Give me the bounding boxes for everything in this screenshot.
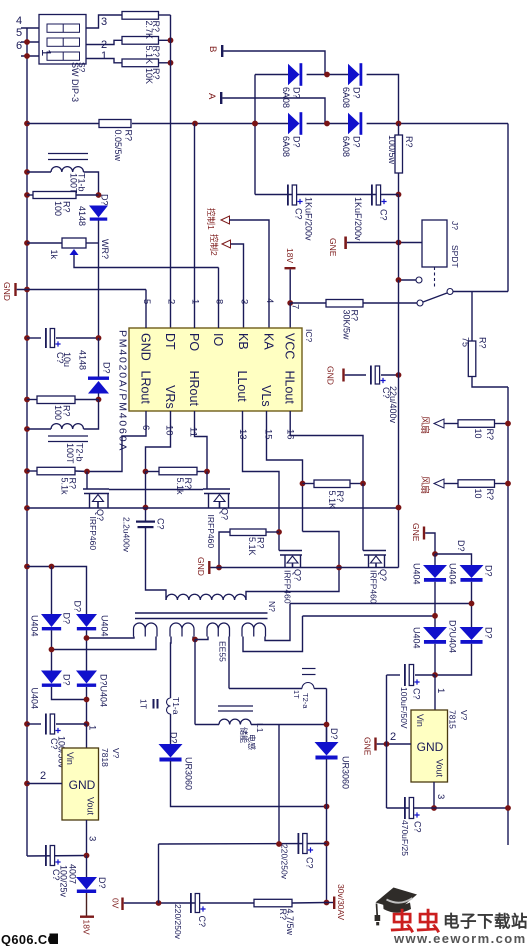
resistor R? 5.1K mid — [314, 480, 350, 488]
svg-text:Vout: Vout — [86, 797, 96, 816]
svg-text:D?: D? — [352, 87, 362, 99]
wire pin6 LRout — [87, 411, 146, 472]
node d4 join — [84, 697, 90, 703]
wire pin10 VRs — [146, 411, 171, 472]
svg-text:D?: D? — [292, 136, 302, 148]
wire common to rail — [453, 291, 508, 293]
ground GND 22u — [342, 369, 344, 382]
capacitor C? 470uF/25 — [404, 797, 406, 819]
wire control2 to KB — [231, 244, 244, 328]
capacitor C? 1KuF/200v b — [371, 185, 373, 206]
node bus mosfet src — [24, 505, 30, 511]
capacitor C? 2.2u400v — [145, 508, 147, 521]
switch lever — [423, 293, 447, 302]
node col1 tap — [432, 613, 438, 619]
wire to ur3060 right — [326, 725, 328, 743]
resistor R? 4.7/5w — [254, 899, 292, 907]
wire quad top — [435, 554, 472, 565]
wire col2 bot — [435, 644, 472, 675]
svg-text:DT: DT — [163, 333, 177, 350]
svg-text:LLout: LLout — [235, 371, 249, 403]
svg-text:5: 5 — [16, 27, 22, 39]
svg-text:IRFP460: IRFP460 — [369, 570, 379, 604]
svg-text:V?: V? — [459, 710, 469, 721]
node in 7818 — [84, 721, 90, 727]
svg-text:WR?: WR? — [100, 239, 110, 259]
wire plus rail down — [398, 195, 400, 281]
svg-text:U404: U404 — [412, 627, 422, 649]
svg-text:EE55: EE55 — [218, 641, 228, 662]
svg-text:30v/30AV: 30v/30AV — [336, 884, 346, 921]
wire center tap down — [194, 640, 196, 725]
svg-text:D?: D? — [484, 565, 494, 577]
wire 470 row — [387, 807, 509, 809]
wire bus bottom corner — [27, 855, 87, 858]
svg-text:N?: N? — [267, 601, 277, 612]
switch pole b — [417, 300, 423, 306]
wire pole a — [399, 279, 417, 281]
transformer T1-b winding 100T — [27, 171, 51, 173]
svg-text:T1-b: T1-b — [77, 173, 87, 192]
wire dip pin5 — [21, 41, 39, 43]
capacitor C? 100/25v — [45, 845, 47, 866]
watermark logo graduation cap — [375, 888, 417, 926]
node bus T1b — [24, 169, 30, 175]
svg-text:1KuF/200v: 1KuF/200v — [353, 197, 363, 241]
svg-text:R?: R? — [151, 68, 161, 80]
node feedback c10u — [96, 335, 102, 341]
transistor Q? IRFP460 second — [206, 472, 208, 490]
svg-text:D?U404: D?U404 — [99, 674, 109, 707]
transistor Q? IRFP460 first — [86, 472, 88, 490]
node drain right — [204, 469, 210, 475]
svg-text:D?: D? — [484, 627, 494, 639]
node L1 join — [324, 722, 330, 728]
wire right rail lower — [507, 387, 509, 845]
diode D? U404 h — [460, 627, 484, 640]
wire bus to R 0.05 — [27, 123, 99, 125]
transformer T2-b core — [48, 435, 88, 437]
svg-text:风扇: 风扇 — [420, 476, 431, 494]
node bus T2b — [24, 426, 30, 432]
capacitor C? 22u/400v — [345, 374, 366, 376]
svg-text:2: 2 — [390, 731, 396, 743]
svg-text:R?: R? — [256, 537, 266, 549]
svg-text:GND: GND — [2, 282, 12, 301]
svg-text:C?: C? — [156, 518, 166, 530]
wire pin11 HRout — [195, 411, 208, 472]
svg-text:HRout: HRout — [187, 371, 201, 407]
resistor R? 100/5w — [398, 124, 400, 136]
wire VCC to R30K — [290, 302, 326, 304]
svg-text:D?: D? — [62, 613, 72, 625]
capacitor C? 10u — [27, 337, 41, 339]
potentiometer WR? 1k — [62, 238, 86, 248]
svg-text:3: 3 — [239, 299, 250, 304]
wire 0V row — [124, 902, 254, 904]
wire VCC pin7 — [289, 303, 291, 328]
wire col1 mid — [434, 582, 436, 627]
svg-text:IC?: IC? — [304, 329, 314, 343]
node bus R100b — [24, 397, 30, 403]
node bus diode row — [24, 564, 30, 570]
inductor L1 core — [218, 705, 253, 707]
resistor R? 100 first — [27, 194, 33, 196]
wire feedback rail — [98, 243, 100, 338]
node gate src — [216, 565, 222, 571]
svg-text:3: 3 — [435, 794, 446, 799]
svg-text:0V: 0V — [111, 898, 121, 909]
wire pin8 io — [218, 268, 220, 329]
svg-text:4148: 4148 — [78, 350, 88, 370]
node bus R100a — [24, 192, 30, 198]
svg-text:100uF/50V: 100uF/50V — [399, 687, 409, 729]
svg-text:6A08: 6A08 — [341, 87, 351, 108]
capacitor C? 1KuF/200v a — [287, 185, 289, 206]
svg-text:C?: C? — [379, 209, 389, 221]
diode D? U404 a — [41, 614, 62, 627]
wire control1 to KA — [229, 220, 269, 328]
svg-text:6A08: 6A08 — [281, 87, 291, 108]
svg-text:100/25v: 100/25v — [59, 865, 69, 898]
node rail 22u — [396, 372, 402, 378]
svg-text:T1-a: T1-a — [171, 697, 181, 715]
node out 7818 — [84, 853, 90, 859]
ground GND lower — [208, 561, 210, 574]
svg-text:C?: C? — [197, 916, 207, 928]
wire pin2 7815 — [377, 743, 411, 745]
svg-text:2: 2 — [40, 770, 46, 782]
svg-text:470uF/25: 470uF/25 — [400, 820, 410, 856]
svg-text:GND: GND — [196, 557, 206, 576]
wire vls rail — [303, 532, 340, 568]
resistor R? 2.7K — [122, 12, 159, 20]
svg-text:10: 10 — [164, 425, 175, 436]
svg-text:Q?: Q? — [293, 569, 303, 581]
svg-text:控制2: 控制2 — [209, 234, 219, 256]
resistor R? 75 — [471, 292, 473, 342]
svg-text:UR3060: UR3060 — [184, 757, 194, 790]
svg-text:D?: D? — [329, 728, 339, 740]
node bus y123 — [24, 121, 30, 127]
wire vrs down — [145, 472, 147, 508]
node bus dip5 — [24, 39, 30, 45]
inductor L1 winding — [195, 724, 219, 726]
wire bridge row2 right — [367, 123, 508, 125]
svg-text:U404: U404 — [448, 563, 458, 585]
svg-text:1: 1 — [87, 725, 98, 730]
wire right rail upper — [507, 124, 509, 292]
svg-text:4.7/5w: 4.7/5w — [285, 909, 295, 936]
wire L1 branch down — [278, 725, 280, 845]
svg-text:LRout: LRout — [139, 371, 153, 405]
svg-text:www.eeworm.com: www.eeworm.com — [393, 931, 527, 946]
svg-text:11: 11 — [188, 427, 199, 437]
svg-text:1KuF/200v: 1KuF/200v — [304, 197, 314, 241]
svg-text:D?: D? — [352, 136, 362, 148]
winding secondary G4 — [242, 623, 266, 637]
wire t1a down — [170, 714, 172, 744]
svg-text:4007: 4007 — [68, 864, 78, 884]
svg-text:Vin: Vin — [65, 752, 75, 765]
node gate q3 — [300, 481, 306, 487]
node half bridge — [336, 565, 342, 571]
wire col2 mid — [471, 582, 473, 627]
wire quad col1 top — [434, 554, 436, 565]
wire pin16 HLout — [290, 411, 363, 484]
winding secondary G1 — [134, 623, 158, 637]
resistor R? 5.1k left — [27, 470, 37, 472]
diode D? 6A08 a — [288, 64, 300, 86]
node PO junction — [192, 121, 198, 127]
node rail pole a — [396, 277, 402, 283]
svg-text:1T: 1T — [292, 690, 301, 699]
svg-text:D?: D? — [100, 194, 110, 206]
svg-text:D?: D? — [97, 877, 107, 889]
svg-text:控制1: 控制1 — [206, 208, 216, 230]
node quad out — [432, 672, 438, 678]
resistor R? 10 fan1 — [444, 423, 458, 425]
capacitor C? 100/50v — [27, 723, 41, 725]
svg-text:1: 1 — [39, 49, 54, 56]
node VCC — [287, 300, 293, 306]
node source mid — [143, 505, 149, 511]
wire vls gate — [302, 484, 304, 532]
node bus 7818 gnd — [24, 781, 30, 787]
wire bridge row2 left — [255, 123, 288, 125]
ground GNE 7815 — [374, 738, 376, 751]
svg-text:IO: IO — [211, 333, 225, 346]
svg-text:D?: D? — [456, 540, 466, 552]
node 0V branch — [156, 900, 162, 906]
node bridge row2 mid — [307, 123, 348, 125]
node bus dip6 — [24, 53, 30, 59]
wire dip pin1 to R 10K — [86, 59, 122, 63]
resistor R? 100 second — [27, 399, 37, 401]
regulator V? 7818 — [62, 748, 99, 820]
node bridge left leg — [252, 121, 258, 127]
svg-text:100T: 100T — [65, 443, 75, 464]
wire gnd col — [386, 675, 388, 808]
svg-text:D?U404: D?U404 — [448, 620, 458, 653]
wire gne to J switch — [347, 242, 422, 244]
svg-text:100/5w: 100/5w — [387, 135, 397, 165]
svg-text:R?: R? — [124, 130, 134, 142]
svg-text:D?: D? — [169, 732, 179, 744]
wire q4 gate drop — [362, 484, 364, 551]
wire pin2 7818 — [27, 783, 62, 785]
svg-text:D?: D? — [73, 601, 83, 613]
svg-text:PM4020A/PM4060A: PM4020A/PM4060A — [117, 330, 129, 452]
svg-text:C?: C? — [413, 821, 423, 833]
wire ur3060l out — [171, 761, 327, 807]
svg-text:T2-b: T2-b — [75, 443, 85, 462]
svg-text:R?: R? — [404, 136, 414, 148]
svg-text:7818: 7818 — [100, 748, 110, 767]
wire dip pin6 — [21, 55, 39, 57]
wire lower source bus — [211, 567, 399, 569]
resistor R? 5.1K gate — [230, 529, 266, 536]
svg-text:R?: R? — [183, 478, 193, 490]
svg-text:C?: C? — [305, 857, 315, 869]
node bus gnd — [24, 287, 30, 293]
node 220 cap2 — [324, 841, 330, 847]
svg-text:75: 75 — [461, 337, 471, 347]
svg-text:GND: GND — [139, 333, 153, 361]
svg-text:KB: KB — [236, 333, 250, 350]
switch J? SPDT — [422, 220, 447, 267]
wire aux rail — [398, 280, 400, 568]
node bus pot — [24, 240, 30, 246]
node rail out — [505, 805, 511, 811]
svg-text:1: 1 — [101, 50, 107, 62]
svg-text:U404: U404 — [30, 615, 40, 637]
diode D? U404 b — [76, 614, 97, 627]
wire pin1 7818 — [86, 724, 88, 748]
node col2 tap — [469, 601, 475, 607]
wire anode bus — [27, 567, 87, 615]
wire R0.05 to bridge — [132, 123, 255, 125]
regulator V? 7815 — [411, 710, 448, 782]
wire 18V to VCC — [289, 269, 291, 303]
svg-text:GND: GND — [326, 366, 336, 385]
svg-text:3: 3 — [87, 836, 98, 841]
node bus cap100 50 — [24, 721, 30, 727]
wire pin1 7815 — [434, 675, 436, 710]
wire col1 bot — [434, 644, 436, 675]
svg-text:Q606.CO: Q606.CO — [1, 932, 58, 946]
capacitor C? 100uF/50V — [387, 674, 401, 676]
wire pin15 VLs — [267, 411, 303, 484]
wire r51k gate left — [219, 532, 230, 568]
svg-text:电感: 电感 — [247, 734, 257, 750]
wire d3 bottom — [52, 687, 87, 700]
wire pin3 7818 — [86, 820, 88, 856]
wire vrs to R51kR — [146, 471, 160, 473]
svg-text:15: 15 — [263, 429, 274, 440]
wire cap to primary — [146, 528, 167, 600]
transformer N? EE55 core — [135, 612, 268, 614]
wire DT rail vertical to IC pin2 — [170, 15, 172, 328]
svg-text:PO: PO — [187, 333, 201, 351]
diode D? U404 c — [41, 671, 62, 684]
svg-text:18V: 18V — [285, 248, 295, 263]
node d2 tap — [84, 635, 90, 641]
svg-text:C?: C? — [412, 688, 422, 700]
svg-text:R?: R? — [151, 46, 161, 58]
resistor R? 5.1K — [122, 37, 159, 45]
svg-text:4: 4 — [16, 15, 22, 27]
wire pin5 gnd — [145, 290, 147, 329]
op-amp IC? PM4020A/PM4060A — [129, 328, 302, 411]
wire dip pin2 to R 5.1K — [86, 40, 122, 44]
wire R30K to switch — [363, 302, 417, 304]
node out port — [324, 900, 330, 906]
svg-text:100: 100 — [53, 405, 63, 420]
capacitor C? 220/250v b — [298, 833, 300, 854]
svg-text:4: 4 — [264, 298, 275, 303]
svg-text:GND: GND — [69, 778, 96, 792]
svg-text:R?: R? — [68, 478, 78, 490]
svg-text:0.05/5w: 0.05/5w — [113, 130, 123, 162]
wire pin3 7815 — [433, 782, 435, 808]
switch common — [447, 289, 453, 295]
svg-text:Vin: Vin — [415, 714, 425, 727]
switch S? SW DIP-3 — [39, 15, 86, 65]
wire pot wiper to IO — [74, 255, 219, 268]
svg-text:4148: 4148 — [77, 206, 87, 226]
svg-text:A: A — [206, 93, 217, 100]
wire R2.7K to DT rail — [159, 14, 171, 16]
svg-text:J?: J? — [450, 221, 460, 230]
wire gnd to IC pin5 — [17, 289, 146, 291]
wire d2 to node — [86, 630, 88, 670]
resistor R? 5.1k right — [159, 467, 197, 475]
node llout r51k — [276, 529, 282, 535]
svg-text:GNE: GNE — [328, 238, 338, 257]
wire q1 drain — [109, 489, 203, 491]
wire gate res mid — [303, 483, 315, 485]
wire R5.1K to DT rail — [159, 39, 171, 41]
svg-text:22u/400v: 22u/400v — [388, 386, 398, 424]
svg-text:B: B — [207, 46, 218, 52]
svg-text:10u: 10u — [62, 352, 72, 367]
svg-text:VLs: VLs — [259, 385, 273, 407]
svg-text:GNE: GNE — [363, 737, 373, 756]
svg-text:U404: U404 — [30, 688, 40, 710]
node rail gne — [396, 240, 402, 246]
diode D? U404 f — [460, 565, 484, 578]
svg-text:IRFP460: IRFP460 — [206, 515, 216, 549]
node feedback rail top — [96, 192, 102, 198]
wire r51k gate right — [266, 531, 279, 533]
svg-text:7: 7 — [290, 304, 301, 309]
diode D? U404 g — [423, 627, 447, 640]
diode D? 6A08 d — [348, 113, 360, 135]
svg-text:U404: U404 — [100, 615, 110, 637]
resistor R? 0.05/5w — [99, 120, 131, 128]
winding secondary G2 — [170, 623, 194, 637]
wire A to bridge — [222, 98, 325, 124]
svg-text:R?: R? — [478, 337, 488, 349]
wire d1 col — [51, 567, 53, 615]
diode D? U404 e — [423, 565, 447, 578]
resistor R? 10K — [122, 59, 159, 67]
node bridge row2 leftdot — [252, 121, 258, 127]
svg-text:风扇: 风扇 — [420, 416, 431, 434]
node DT rail junction 2 — [168, 60, 174, 66]
svg-text:R?: R? — [151, 21, 161, 33]
wire gne to quad — [425, 533, 435, 554]
svg-text:HLout: HLout — [283, 371, 297, 405]
node DT rail junction 1 — [168, 37, 174, 43]
wire bridge row1 left — [255, 74, 288, 76]
svg-text:KA: KA — [262, 333, 276, 350]
wire sec right upper — [290, 603, 472, 605]
transformer T2-b winding 100T — [27, 428, 51, 430]
node quad top — [432, 551, 438, 557]
svg-text:6A08: 6A08 — [341, 136, 351, 157]
wire left bus vertical — [26, 28, 28, 856]
svg-text:Vout: Vout — [435, 759, 445, 778]
svg-text:Q?: Q? — [378, 569, 388, 581]
transistor Q? IRFP460 third — [279, 550, 302, 552]
wire source bus — [27, 507, 399, 509]
transformer N? primary winding — [166, 594, 246, 600]
node d1 tap — [49, 647, 55, 653]
svg-text:R?: R? — [62, 405, 72, 417]
wire d4 bottom — [86, 687, 88, 724]
